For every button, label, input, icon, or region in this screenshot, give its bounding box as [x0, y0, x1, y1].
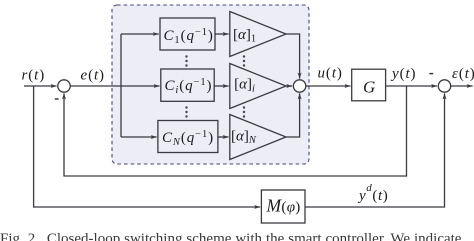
svg-text:e(t): e(t) — [81, 67, 105, 83]
svg-text:yd(t): yd(t) — [357, 182, 388, 204]
svg-text:y(t): y(t) — [390, 66, 416, 82]
svg-text:[α]i: [α]i — [234, 77, 255, 95]
svg-text:r(t): r(t) — [22, 67, 46, 83]
svg-text:G: G — [363, 77, 375, 96]
svg-text:ε(t): ε(t) — [452, 66, 474, 82]
svg-text:u(t): u(t) — [318, 66, 343, 82]
